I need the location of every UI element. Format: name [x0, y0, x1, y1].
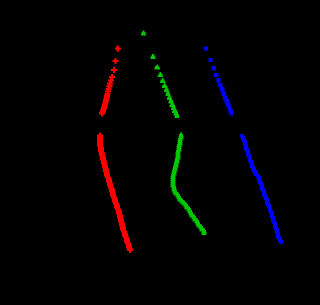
red data series: plus markers, sparse top run — [97, 46, 133, 253]
green data series: triangle markers — [141, 31, 207, 236]
blue data series: square markers — [204, 46, 283, 244]
